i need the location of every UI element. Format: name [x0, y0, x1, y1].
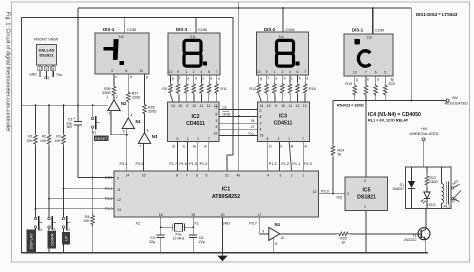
wire IC3 C to IC1 P1.2 — [278, 142, 280, 172]
svg-text:4: 4 — [200, 70, 202, 74]
relay contact arm — [453, 191, 461, 200]
wire X2 pin18 down — [160, 217, 162, 227]
svg-text:e: e — [276, 77, 278, 81]
svg-text:a: a — [306, 77, 308, 81]
svg-text:DIS-2: DIS-2 — [264, 27, 276, 32]
svg-text:6: 6 — [177, 137, 179, 141]
wire +5V drop to left rail — [77, 8, 79, 105]
svg-text:1: 1 — [39, 67, 41, 71]
resistor R16 330ohm — [289, 75, 291, 83]
resistor R17 330ohm — [297, 75, 299, 83]
LED2 — [424, 192, 430, 198]
svg-text:DOWN: DOWN — [49, 233, 54, 246]
svg-text:3,8: 3,8 — [367, 36, 372, 40]
svg-text:3,8: 3,8 — [279, 35, 284, 39]
resistor R6 330ohm — [177, 75, 179, 83]
svg-text:COM: COM — [127, 28, 136, 32]
svg-text:P3.7: P3.7 — [249, 221, 257, 225]
wire P3.2 to IC1 — [49, 198, 114, 200]
svg-text:10: 10 — [281, 236, 285, 240]
7-segment display DIS-3 — [168, 33, 220, 75]
svg-text:B: B — [291, 145, 294, 149]
svg-text:VDD: VDD — [248, 132, 254, 137]
resistor R27 330ohm — [127, 74, 129, 92]
svg-text:1K: 1K — [341, 240, 346, 244]
svg-text:1: 1 — [273, 70, 275, 74]
node +5V rail tap x=35.5 — [35, 104, 37, 106]
svg-text:P3.0: P3.0 — [321, 190, 329, 194]
svg-text:6: 6 — [147, 128, 149, 132]
svg-text:12 MHz: 12 MHz — [173, 236, 185, 240]
relay network box — [406, 167, 452, 209]
svg-text:10: 10 — [192, 104, 196, 108]
wire N4 ground pin — [273, 237, 275, 253]
wire N3 input to P3.5 column — [142, 143, 144, 171]
svg-text:40: 40 — [236, 173, 240, 177]
switch S4 — [34, 217, 36, 219]
svg-text:3: 3 — [279, 173, 281, 177]
relay contact N/C — [452, 197, 454, 199]
wire COM top bus (left) — [22, 17, 234, 19]
capacitor C3 10u 16V — [77, 105, 79, 121]
svg-text:2N2222: 2N2222 — [404, 238, 417, 242]
wire X1 pin19 down — [192, 217, 194, 227]
svg-text:4: 4 — [289, 70, 291, 74]
resistor R26 330ohm — [113, 74, 115, 86]
wire bottom ground bus — [22, 252, 429, 254]
svg-text:7: 7 — [216, 70, 218, 74]
svg-text:A: A — [304, 145, 307, 149]
svg-text:10: 10 — [281, 104, 285, 108]
svg-text:VDD: VDD — [56, 73, 62, 78]
svg-text:13: 13 — [117, 208, 121, 212]
wire GND bus IC2-IC3 — [219, 116, 258, 118]
svg-text:N1: N1 — [136, 119, 142, 124]
svg-text:7: 7 — [302, 137, 304, 141]
svg-text:7: 7 — [186, 173, 188, 177]
svg-text:10: 10 — [257, 70, 261, 74]
tag RESET — [94, 136, 109, 141]
svg-text:3,8: 3,8 — [190, 35, 195, 39]
node on GND bus line — [238, 115, 240, 117]
svg-text:6: 6 — [297, 70, 299, 74]
svg-text:DIS-3: DIS-3 — [176, 27, 188, 32]
svg-text:330Ω: 330Ω — [148, 110, 157, 114]
svg-text:2: 2 — [281, 70, 283, 74]
svg-text:10K: 10K — [54, 139, 61, 143]
resistor R20 330ohm — [365, 76, 367, 84]
resistor R23 330ohm — [426, 167, 428, 174]
svg-text:b: b — [130, 75, 132, 79]
svg-text:DQ: DQ — [337, 196, 343, 200]
svg-text:4: 4 — [260, 128, 262, 132]
svg-text:2: 2 — [291, 173, 293, 177]
svg-text:IC4 (N1-N4) = CD4050: IC4 (N1-N4) = CD4050 — [368, 112, 421, 118]
svg-text:2: 2 — [193, 70, 195, 74]
svg-text:IC2: IC2 — [191, 114, 199, 120]
DIS-2 decimal point — [295, 62, 299, 66]
DIS-3 decimal point — [203, 62, 207, 66]
svg-text:7: 7 — [365, 70, 367, 74]
resistor R19 330ohm — [354, 76, 356, 84]
resistor R22 330ohm — [384, 76, 386, 84]
relay contact N/O — [452, 187, 454, 189]
svg-text:P3.5: P3.5 — [136, 162, 144, 166]
DIS-4 minus segment — [104, 47, 115, 51]
resistor R5 330ohm — [170, 75, 172, 83]
wire T1 emitter to ground bus — [425, 239, 427, 253]
svg-text:16: 16 — [213, 131, 217, 135]
svg-text:N3: N3 — [152, 134, 158, 139]
svg-text:4: 4 — [267, 173, 269, 177]
svg-text:P1.0: P1.0 — [304, 162, 312, 166]
svg-text:AT89S8252: AT89S8252 — [212, 194, 240, 200]
7-segment display DIS-2 — [257, 32, 309, 75]
svg-text:COM: COM — [375, 29, 384, 33]
svg-text:16: 16 — [260, 133, 264, 137]
svg-text:7: 7 — [208, 137, 210, 141]
svg-text:4: 4 — [215, 125, 217, 129]
svg-text:4: 4 — [131, 113, 133, 117]
svg-text:R5-R23 = 330Ω: R5-R23 = 330Ω — [337, 104, 364, 108]
svg-text:9: 9 — [262, 229, 264, 233]
tag DISPLAY — [27, 230, 36, 254]
svg-text:d: d — [195, 77, 197, 81]
wire DIS-2 COM — [282, 8, 284, 33]
DIS-1 letter C segments — [358, 51, 370, 66]
resistor R15 330ohm — [281, 75, 283, 83]
svg-text:6: 6 — [267, 137, 269, 141]
svg-text:1: 1 — [302, 173, 304, 177]
svg-text:S2: S2 — [66, 228, 70, 232]
svg-text:DIS1-DIS4 = LTS543: DIS1-DIS4 = LTS543 — [416, 12, 458, 17]
svg-text:b: b — [299, 77, 301, 81]
wire DIS-4 COM — [124, 18, 126, 34]
resistor R3 10K — [63, 105, 65, 133]
7-segment display DIS-4 — [95, 33, 149, 74]
svg-text:P3.1: P3.1 — [105, 187, 113, 191]
svg-text:a: a — [218, 77, 220, 81]
svg-text:e: e — [367, 77, 369, 81]
svg-text:9: 9 — [186, 104, 188, 108]
svg-text:3,8: 3,8 — [119, 35, 124, 39]
svg-text:2: 2 — [278, 137, 280, 141]
wire IC3 B to IC1 P1.1 — [289, 142, 292, 172]
svg-text:REGULATED: REGULATED — [445, 101, 469, 106]
switch S3 — [48, 217, 50, 219]
svg-text:R5: R5 — [162, 87, 167, 91]
op-amp buffer N1 — [122, 118, 134, 129]
svg-text:8: 8 — [275, 242, 277, 246]
svg-text:3: 3 — [52, 67, 54, 71]
svg-text:10: 10 — [353, 70, 357, 74]
wire IC3 A to IC1 P1.0 — [302, 142, 304, 172]
svg-text:P1.4: P1.4 — [200, 162, 208, 166]
svg-text:11: 11 — [288, 104, 292, 108]
svg-text:1: 1 — [106, 95, 108, 99]
transistor T1 2N2222 — [418, 228, 430, 240]
svg-text:5: 5 — [123, 130, 125, 134]
DIS-3 digit 8 — [184, 40, 201, 53]
svg-text:1N4007: 1N4007 — [392, 187, 404, 191]
crystal X-TAL 12MHz — [175, 223, 183, 231]
svg-text:13: 13 — [303, 104, 307, 108]
svg-text:P3.4: P3.4 — [120, 162, 128, 166]
node junction top bus — [238, 7, 240, 9]
op-amp buffer N4 — [269, 227, 280, 240]
svg-text:LED2: LED2 — [427, 203, 436, 207]
wire IC2 C to IC1 P1.6 — [187, 142, 189, 172]
wire IC5 GND pin1 down — [365, 211, 367, 253]
svg-text:d: d — [284, 77, 286, 81]
svg-text:3: 3 — [109, 112, 111, 116]
node S3 tap — [48, 198, 50, 200]
svg-text:6: 6 — [208, 70, 210, 74]
node S2 tap — [63, 188, 65, 190]
wire crystal left — [161, 226, 173, 228]
svg-text:D: D — [269, 145, 272, 149]
DS1821 pin box 3 — [51, 66, 55, 71]
svg-text:12: 12 — [207, 104, 211, 108]
svg-text:7: 7 — [304, 70, 306, 74]
svg-text:g: g — [172, 77, 174, 81]
svg-text:17: 17 — [258, 213, 262, 217]
svg-text:10K: 10K — [26, 139, 33, 143]
ground symbol — [222, 253, 224, 256]
svg-text:2: 2 — [116, 95, 118, 99]
svg-text:R18: R18 — [309, 87, 316, 91]
svg-text:Fig. 1: Circuit of digital the: Fig. 1: Circuit of digital thermometer-c… — [5, 12, 11, 132]
resistor R18 330ohm — [304, 75, 306, 83]
DIS-4 decimal point — [120, 61, 124, 65]
svg-text:8: 8 — [176, 173, 178, 177]
svg-text:S4: S4 — [38, 228, 42, 232]
svg-text:5: 5 — [260, 109, 262, 113]
svg-text:10K: 10K — [40, 139, 47, 143]
wire IC5 VDD from +5V bus — [365, 95, 367, 177]
resistor R21 330ohm — [375, 76, 377, 84]
svg-text:22p: 22p — [149, 240, 155, 244]
resistor R8 330ohm — [193, 75, 195, 83]
node DQ/R24 — [332, 193, 334, 195]
svg-text:5: 5 — [384, 70, 386, 74]
svg-text:P1.2: P1.2 — [281, 162, 289, 166]
resistor R9 330ohm — [200, 75, 202, 83]
svg-text:8: 8 — [260, 115, 262, 119]
wire LT bus IC2-IC3 — [219, 128, 258, 130]
svg-text:UNREGULATED: UNREGULATED — [409, 131, 438, 136]
wire IC2 B to IC1 P1.5 — [197, 142, 199, 172]
svg-text:RL1 = 6V, 1C/O RELAY: RL1 = 6V, 1C/O RELAY — [368, 118, 409, 122]
resistor R10 330ohm — [208, 75, 210, 83]
svg-text:P1.5: P1.5 — [189, 162, 197, 166]
svg-text:UP: UP — [64, 235, 69, 241]
IC U-IC2 CD4511 body — [168, 102, 219, 142]
svg-text:FRONT VIEW: FRONT VIEW — [34, 37, 59, 42]
diode D1 1N4007 — [411, 167, 413, 181]
capacitor C6 22p — [192, 227, 194, 235]
svg-text:b: b — [210, 77, 212, 81]
svg-text:12: 12 — [117, 198, 121, 202]
wire VDD bus IC2-IC3 — [219, 135, 258, 137]
DIS-4 digit 1 segment — [113, 39, 119, 60]
switch S1 — [92, 105, 94, 117]
svg-text:10: 10 — [313, 190, 317, 194]
DS1821 pin box 2 — [44, 66, 48, 71]
DS1821 package front view — [37, 45, 57, 66]
svg-text:DS1821: DS1821 — [357, 195, 376, 201]
svg-text:P1.3: P1.3 — [269, 162, 277, 166]
svg-text:7: 7 — [139, 145, 141, 149]
svg-text:IC1: IC1 — [222, 187, 230, 193]
wire S2 to ground bus — [63, 228, 65, 253]
svg-text:9: 9 — [266, 70, 268, 74]
svg-text:6: 6 — [125, 69, 127, 73]
wire left frame vertical — [21, 18, 23, 253]
svg-text:6: 6 — [375, 70, 377, 74]
wire +6V down to relay box — [423, 141, 425, 167]
resistor R12 330ohm — [258, 75, 260, 83]
svg-text:f: f — [268, 77, 269, 81]
wire +5V regulated rail — [333, 100, 446, 102]
svg-text:22p: 22p — [199, 240, 205, 244]
wire EA line (pin 31) — [232, 18, 234, 156]
svg-text:15: 15 — [142, 173, 146, 177]
tag DOWN — [48, 231, 57, 249]
svg-text:c: c — [291, 77, 293, 81]
svg-text:COM: COM — [198, 28, 207, 32]
svg-text:f: f — [179, 77, 180, 81]
svg-text:X1: X1 — [194, 221, 199, 225]
svg-text:P1.7: P1.7 — [169, 162, 177, 166]
wire IC2 D to IC1 P1.7 — [177, 142, 179, 172]
DS1821 lead 2 — [46, 65, 48, 79]
svg-text:IC3: IC3 — [279, 114, 287, 120]
node +5V rail tap x=49 — [48, 104, 50, 106]
wire N2 input to P3.4 node — [110, 111, 112, 135]
svg-text:LE: LE — [223, 105, 228, 109]
resistor R4 10K — [92, 177, 94, 213]
wire S3 to ground bus — [48, 228, 50, 253]
svg-text:1: 1 — [185, 70, 187, 74]
resistor R14 330ohm — [273, 75, 275, 83]
wire P3.1 to IC1 — [64, 188, 115, 190]
node +5V rail tap x=92.6 — [92, 104, 94, 106]
+6V terminal — [422, 138, 425, 141]
wire VCC line (pin 40) — [238, 8, 240, 171]
resistor R11 330ohm — [216, 75, 218, 83]
wire S4 to ground bus — [35, 228, 37, 253]
node IC5 VDD on bus — [365, 100, 367, 102]
svg-text:d: d — [377, 77, 379, 81]
svg-text:5: 5 — [215, 105, 217, 109]
relay coil RL1 — [441, 167, 443, 184]
svg-text:16V: 16V — [66, 125, 73, 129]
svg-text:DQ: DQ — [44, 76, 49, 80]
resistor R7 330ohm — [185, 75, 187, 83]
IC U-IC1 AT89S8252 body — [114, 171, 319, 217]
switch S2 — [62, 217, 64, 219]
svg-text:10: 10 — [169, 70, 173, 74]
svg-text:3: 3 — [260, 121, 262, 125]
DS1821 lead 3 — [52, 65, 54, 77]
svg-text:R19: R19 — [345, 82, 352, 86]
svg-text:RST: RST — [105, 176, 113, 180]
svg-text:g: g — [146, 75, 148, 79]
DIS-2 digit 8 — [277, 40, 294, 53]
wire +5V top bus — [78, 7, 411, 9]
resistor R2 10K — [48, 105, 50, 133]
resistor R13 330ohm — [266, 75, 268, 83]
node S4 tap — [35, 208, 37, 210]
node N1/N2 inputs joined — [126, 134, 128, 136]
svg-text:P1.6: P1.6 — [179, 162, 187, 166]
resistor R28 330ohm — [143, 74, 145, 104]
svg-text:R22: R22 — [389, 82, 396, 86]
svg-text:N2: N2 — [121, 101, 127, 106]
svg-text:20: 20 — [221, 213, 225, 217]
node +5V rail tap x=78 — [77, 104, 79, 106]
wire +5V down right side — [410, 8, 412, 101]
svg-text:R12: R12 — [249, 87, 256, 91]
svg-text:10: 10 — [139, 69, 143, 73]
svg-text:4: 4 — [111, 69, 113, 73]
svg-text:DS1821: DS1821 — [39, 52, 54, 57]
svg-text:g: g — [260, 77, 262, 81]
svg-text:CD4511: CD4511 — [186, 121, 205, 127]
svg-text:3: 3 — [215, 119, 217, 123]
svg-text:C: C — [183, 145, 186, 149]
wire relay box to T1 collector — [425, 209, 427, 230]
svg-text:N4: N4 — [275, 222, 281, 227]
svg-text:P3.2: P3.2 — [105, 197, 113, 201]
wire P3.7 pin17 down — [259, 217, 261, 234]
wire N1 input to P3.4 column — [126, 129, 128, 171]
wire DIS-3 COM — [195, 18, 197, 34]
svg-text:+5V: +5V — [451, 95, 458, 100]
DIS-1 degree segment — [354, 39, 359, 45]
svg-text:330Ω: 330Ω — [132, 96, 141, 100]
svg-text:c: c — [203, 77, 205, 81]
svg-text:GND: GND — [222, 221, 231, 225]
svg-text:15: 15 — [178, 104, 182, 108]
svg-text:2: 2 — [347, 192, 349, 196]
svg-text:P1.1: P1.1 — [292, 162, 300, 166]
svg-text:COM: COM — [286, 28, 295, 32]
svg-text:P3.3: P3.3 — [105, 207, 113, 211]
resistor R1 10K — [35, 105, 37, 133]
op-amp buffer N2 — [108, 100, 120, 111]
svg-text:31: 31 — [225, 173, 229, 177]
svg-text:9: 9 — [117, 177, 119, 181]
wire N4 output to R29 — [280, 233, 336, 235]
svg-text:3: 3 — [364, 179, 366, 183]
wire stub above node — [238, 2, 240, 8]
svg-text:DIS-4: DIS-4 — [103, 27, 115, 32]
svg-text:DIS-1: DIS-1 — [352, 28, 364, 33]
op-amp buffer N3 — [138, 133, 150, 144]
svg-text:8: 8 — [215, 112, 217, 116]
svg-text:14: 14 — [259, 104, 263, 108]
DS1821 pin box 1 — [38, 66, 42, 71]
DS1821 lead 1 — [39, 65, 41, 77]
wire +5V left rail — [22, 104, 108, 106]
7-segment display DIS-1 — [344, 34, 393, 76]
svg-text:9: 9 — [177, 70, 179, 74]
svg-text:g: g — [356, 77, 358, 81]
svg-text:R11: R11 — [221, 87, 227, 91]
svg-text:5: 5 — [206, 173, 208, 177]
